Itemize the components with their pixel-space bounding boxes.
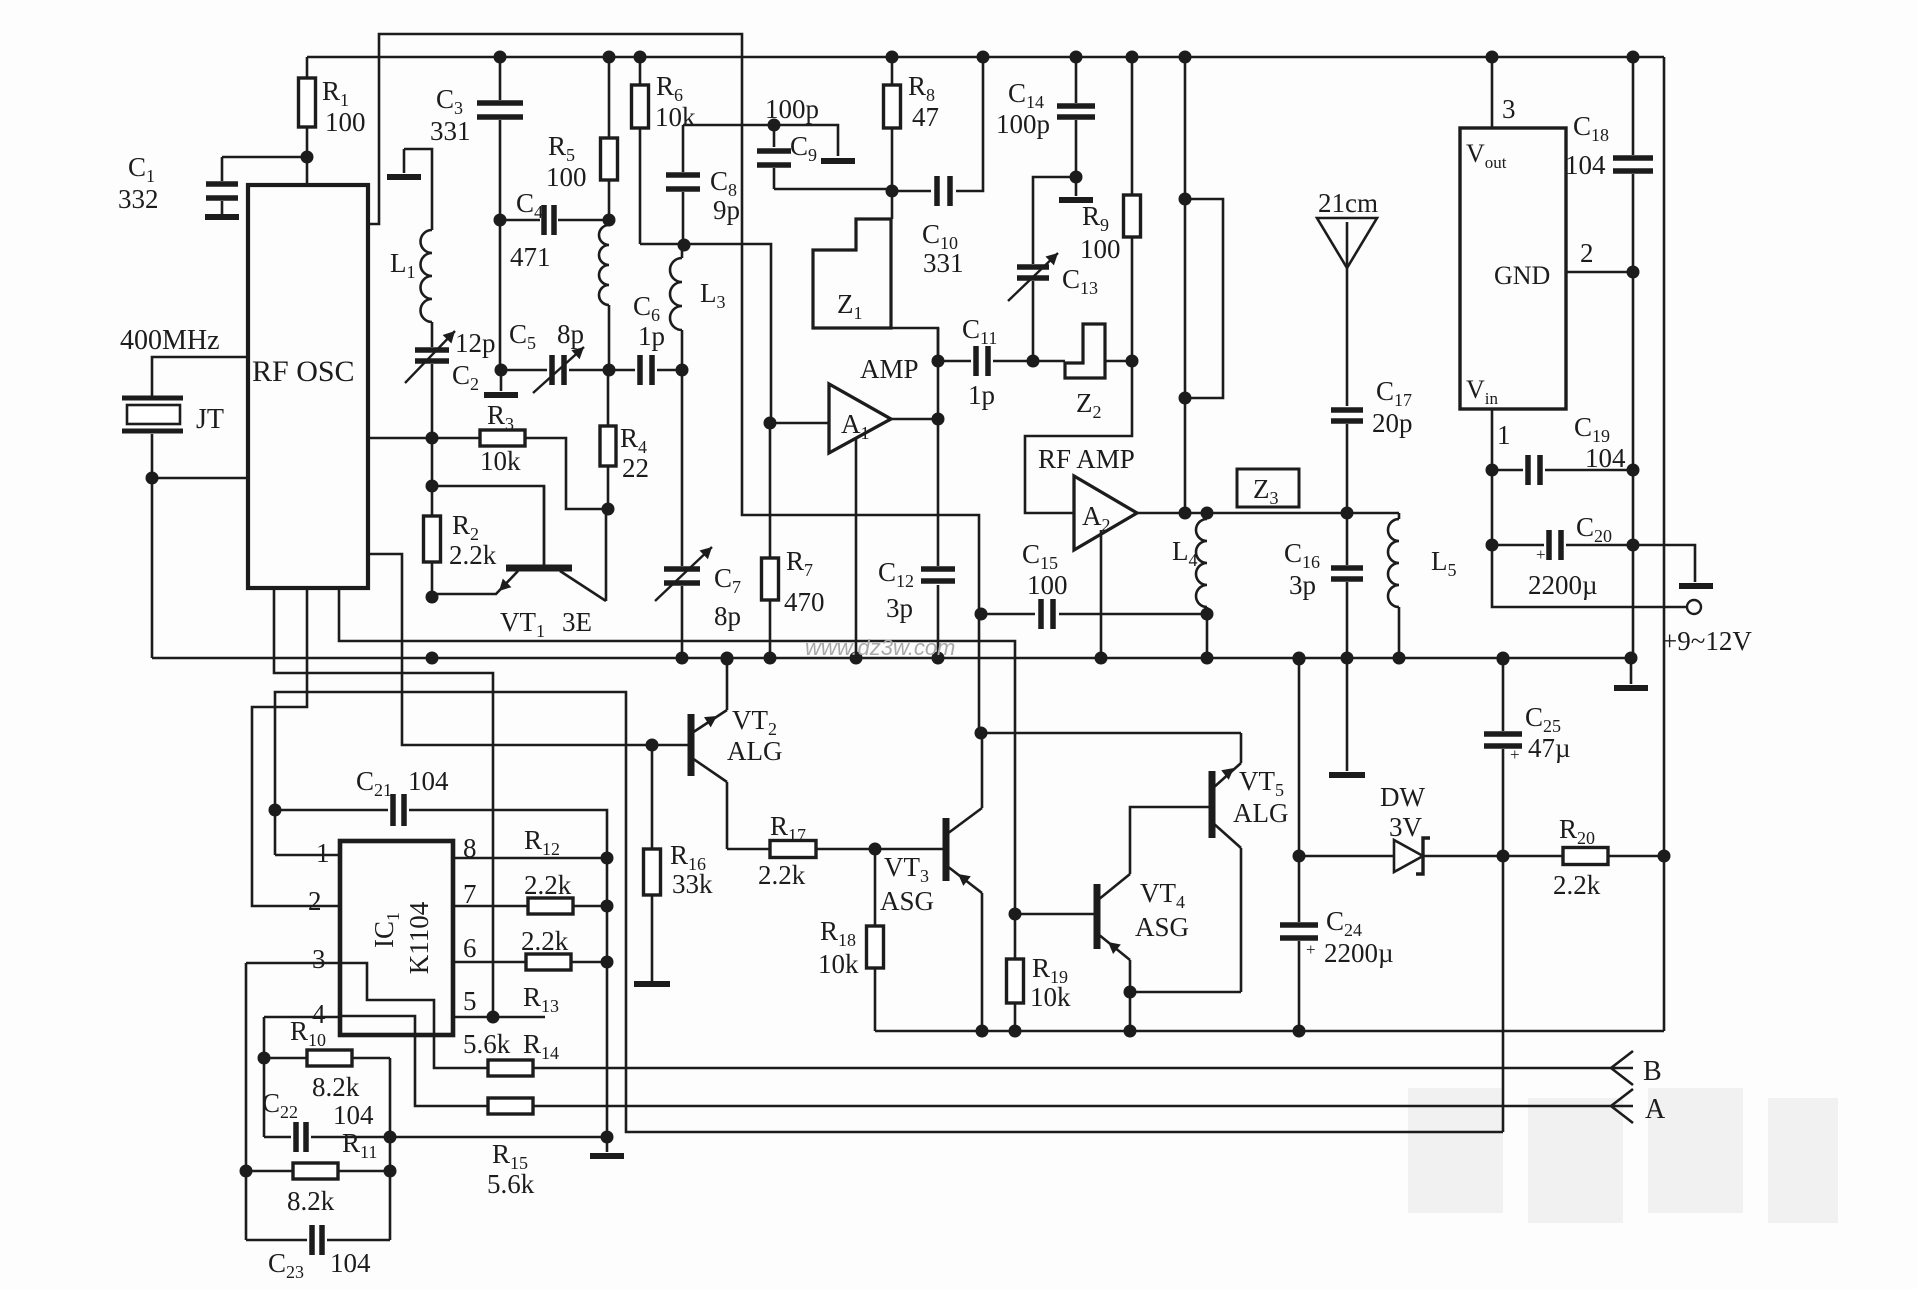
svg-text:DW: DW bbox=[1380, 782, 1425, 812]
wire R3 line bbox=[368, 438, 608, 509]
capacitor C22 bbox=[296, 1122, 306, 1152]
wire VT1 base bbox=[432, 486, 544, 566]
svg-text:22: 22 bbox=[622, 453, 649, 483]
ground at L1 top bbox=[403, 149, 406, 173]
node R11 left junction bbox=[240, 1165, 253, 1178]
crystal JT bbox=[122, 398, 183, 431]
node VT4 emitter junction bbox=[1124, 986, 1137, 999]
svg-text:ALG: ALG bbox=[727, 736, 783, 766]
node R4 bottom junction bbox=[602, 503, 615, 516]
node bus junction bbox=[764, 652, 777, 665]
wire A1 power pin bbox=[855, 437, 858, 658]
wire A1 output bbox=[891, 418, 938, 421]
wire IC internal route pin3 bbox=[340, 963, 434, 1035]
svg-text:+: + bbox=[1510, 745, 1520, 764]
svg-text:1: 1 bbox=[1497, 420, 1511, 450]
wire C5 line bbox=[501, 369, 609, 372]
svg-text:471: 471 bbox=[510, 242, 551, 272]
wire L1 to C2 bbox=[431, 322, 434, 347]
wire pin7 line bbox=[453, 905, 607, 908]
svg-text:A: A bbox=[1645, 1094, 1666, 1125]
svg-text:104: 104 bbox=[330, 1248, 371, 1278]
node C14 bottom junction bbox=[1070, 171, 1083, 184]
svg-text:3: 3 bbox=[1502, 94, 1516, 124]
node AMP-C11 junction bbox=[932, 355, 945, 368]
svg-text:ASG: ASG bbox=[880, 886, 934, 916]
node VT3 emitter bottom junction bbox=[976, 1025, 989, 1038]
svg-text:2.2k: 2.2k bbox=[521, 926, 569, 956]
capacitor C10 bbox=[937, 176, 950, 206]
node screen loop top junction bbox=[1179, 193, 1192, 206]
wire C4 link bbox=[500, 219, 609, 222]
node R9 top bbox=[1126, 51, 1139, 64]
svg-text:104: 104 bbox=[408, 766, 449, 796]
resistor R12 bbox=[528, 898, 573, 914]
capacitor C25 electrolytic bbox=[1484, 734, 1522, 746]
capacitor C16 bbox=[1346, 513, 1349, 565]
node pin8 junction bbox=[601, 852, 614, 865]
filter Z3 box bbox=[1237, 469, 1299, 507]
node R8 top bbox=[886, 51, 899, 64]
wire pin route B bbox=[252, 588, 340, 906]
node bus junction bbox=[850, 652, 863, 665]
node C17-C16 junction bbox=[1341, 507, 1354, 520]
node R19 bottom junction bbox=[1009, 1025, 1022, 1038]
svg-text:332: 332 bbox=[118, 184, 159, 214]
node bus junction bbox=[676, 652, 689, 665]
node R2 top junction bbox=[426, 480, 439, 493]
node JT-RFOSC junction bbox=[146, 472, 159, 485]
resistor R5 bbox=[608, 57, 611, 138]
wire C6 link bbox=[609, 369, 682, 372]
svg-text:2: 2 bbox=[308, 886, 322, 916]
capacitor C9 bbox=[773, 125, 776, 147]
node C9 top bbox=[768, 119, 781, 132]
node C2-R3 junction bbox=[426, 432, 439, 445]
wire main bus bbox=[152, 657, 1631, 660]
resistor R9 bbox=[1131, 57, 1134, 195]
capacitor C12 bbox=[921, 569, 955, 581]
node C21 left junction bbox=[269, 804, 282, 817]
svg-text:3V: 3V bbox=[1389, 812, 1423, 842]
node R10 left junction bbox=[258, 1052, 271, 1065]
svg-text:400MHz: 400MHz bbox=[120, 325, 220, 356]
node R2 bottom junction bbox=[426, 591, 439, 604]
ground below C1 bbox=[205, 214, 239, 220]
wire emitter link bbox=[1130, 992, 1241, 1031]
wire A2 output bbox=[1137, 512, 1399, 515]
capacitor C24 electrolytic bbox=[1280, 925, 1318, 938]
wire C1 lower stub bbox=[221, 201, 224, 214]
wire regulator pin2 bbox=[1566, 271, 1633, 274]
svg-text:331: 331 bbox=[923, 248, 964, 278]
wire C15 line bbox=[981, 613, 1207, 616]
svg-text:10k: 10k bbox=[818, 949, 859, 979]
regulator block bbox=[1460, 128, 1566, 409]
terminal supply circle bbox=[1687, 600, 1701, 614]
node bus junction bbox=[1293, 652, 1306, 665]
node C20 right junction bbox=[1627, 539, 1640, 552]
wire C21 line bbox=[275, 810, 607, 858]
svg-text:470: 470 bbox=[784, 587, 825, 617]
capacitor C5 variable bbox=[552, 355, 564, 385]
svg-text:AMP: AMP bbox=[860, 354, 919, 384]
node A1 output junction bbox=[932, 413, 945, 426]
resistor R14 bbox=[488, 1060, 533, 1076]
wire pin route D to VT2 base bbox=[368, 554, 691, 745]
node bus junction bbox=[721, 652, 734, 665]
svg-text:ALG: ALG bbox=[1233, 798, 1289, 828]
node screen loop bottom junction bbox=[1179, 392, 1192, 405]
svg-text:+: + bbox=[1536, 545, 1546, 564]
wire pin8 line bbox=[453, 857, 607, 860]
node VT4 bottom bus junction bbox=[1124, 1025, 1137, 1038]
wire C11 link bbox=[938, 360, 1033, 363]
wire supply loop bbox=[1492, 545, 1686, 607]
svg-text:4: 4 bbox=[312, 999, 326, 1029]
svg-text:3E: 3E bbox=[562, 607, 592, 637]
wire JT to RF OSC pin bbox=[152, 477, 248, 480]
svg-text:10k: 10k bbox=[1030, 982, 1071, 1012]
svg-text:RF AMP: RF AMP bbox=[1038, 444, 1135, 474]
wire VT3-VT5 collector link bbox=[981, 732, 1241, 735]
wire pin route A bbox=[274, 588, 493, 1017]
transistor VT1 bbox=[506, 565, 572, 572]
svg-text:100: 100 bbox=[1027, 570, 1068, 600]
wire C20 link bbox=[1492, 545, 1695, 582]
wire C13 bottom bbox=[1032, 281, 1035, 361]
svg-text:104: 104 bbox=[1585, 443, 1626, 473]
node L2 top junction bbox=[603, 214, 616, 227]
node C20 left junction bbox=[1486, 539, 1499, 552]
capacitor C2 variable bbox=[415, 350, 449, 361]
node R17-VT3 junction bbox=[869, 843, 882, 856]
svg-text:2200µ: 2200µ bbox=[1324, 938, 1394, 968]
wire R20 line bbox=[1503, 855, 1664, 858]
node DW left junction bbox=[1293, 850, 1306, 863]
resistor R10 bbox=[307, 1050, 352, 1066]
wire A line bbox=[533, 1105, 1610, 1108]
wire pin6 line bbox=[453, 961, 607, 964]
antenna 21cm bbox=[1317, 218, 1377, 268]
svg-text:33k: 33k bbox=[672, 869, 713, 899]
node R1-C1 junction bbox=[301, 151, 314, 164]
wire IC pin1 supply route bbox=[275, 692, 1503, 1132]
wire feedback loop top bbox=[368, 34, 979, 733]
ground right of C9 bbox=[821, 158, 855, 164]
transistor VT2 bbox=[688, 714, 695, 776]
capacitor C7 variable bbox=[681, 370, 684, 566]
svg-text:5: 5 bbox=[463, 986, 477, 1016]
node R20 right junction bbox=[1658, 850, 1671, 863]
wire C22 left rail bbox=[264, 1058, 390, 1137]
svg-text:331: 331 bbox=[430, 116, 471, 146]
node C3 top bbox=[494, 51, 507, 64]
node rail ground junction bbox=[601, 1131, 614, 1144]
capacitor C13 variable bbox=[1017, 267, 1049, 278]
svg-text:21cm: 21cm bbox=[1318, 188, 1378, 218]
node bus junction bbox=[932, 652, 945, 665]
transistor VT5 bbox=[1209, 771, 1216, 838]
wire right rail R12R13 bbox=[606, 858, 609, 1137]
wire C13 top link bbox=[1033, 177, 1076, 264]
svg-text:5.6k: 5.6k bbox=[463, 1029, 511, 1059]
wire pin3 left rail bbox=[246, 963, 340, 1240]
node C11 right junction bbox=[1027, 355, 1040, 368]
svg-text:RF OSC: RF OSC bbox=[252, 355, 355, 388]
resistor R17 bbox=[770, 841, 816, 858]
op-amp A1 bbox=[829, 384, 891, 453]
IC RF OSC block bbox=[248, 185, 368, 588]
svg-text:8p: 8p bbox=[557, 319, 584, 349]
node screen rail output junction bbox=[1179, 507, 1192, 520]
node C19 right junction bbox=[1627, 464, 1640, 477]
resistor R1 bbox=[306, 57, 309, 78]
capacitor C23 bbox=[312, 1225, 322, 1255]
svg-text:2.2k: 2.2k bbox=[524, 870, 572, 900]
capacitor C21 bbox=[393, 794, 404, 826]
wire C25 column bbox=[1502, 658, 1505, 856]
node R12 right junction bbox=[601, 900, 614, 913]
svg-text:100: 100 bbox=[325, 107, 366, 137]
node screen rail top bbox=[1179, 51, 1192, 64]
node C16 bus junction bbox=[1341, 652, 1354, 665]
svg-text:47: 47 bbox=[912, 102, 939, 132]
wire C10 link bbox=[892, 57, 983, 191]
svg-text:3p: 3p bbox=[886, 593, 913, 623]
inductor L1 bbox=[421, 230, 432, 322]
svg-text:www.dz3w.com: www.dz3w.com bbox=[805, 635, 955, 660]
svg-text:+9~12V: +9~12V bbox=[1662, 626, 1752, 656]
wire screen rail bbox=[1184, 57, 1187, 513]
svg-text:100: 100 bbox=[1080, 234, 1121, 264]
capacitor C18 bbox=[1613, 158, 1653, 171]
wire VT4 base bbox=[1015, 913, 1095, 916]
svg-text:2.2k: 2.2k bbox=[449, 540, 497, 570]
capacitor C6 bbox=[640, 355, 652, 385]
node pin2 junction bbox=[1627, 266, 1640, 279]
capacitor C14 bbox=[1075, 57, 1078, 177]
svg-text:2200µ: 2200µ bbox=[1528, 570, 1598, 600]
terminal A arrow bbox=[1610, 1105, 1633, 1108]
node C25-R20 junction bbox=[1497, 850, 1510, 863]
svg-text:8p: 8p bbox=[714, 601, 741, 631]
node bus junction bbox=[1497, 652, 1510, 665]
node L2 bottom junction bbox=[603, 364, 616, 377]
resistor R15 bbox=[488, 1098, 533, 1114]
ground below C14 bbox=[1075, 177, 1078, 196]
svg-text:1p: 1p bbox=[968, 380, 995, 410]
node VT2 base junction bbox=[646, 739, 659, 752]
node L4 top bbox=[1201, 507, 1214, 520]
wire R10 right rail bbox=[389, 1058, 392, 1240]
wire pin4 line bbox=[264, 1017, 340, 1058]
wire Z1 stub bbox=[891, 191, 894, 219]
node C15 left junction bbox=[975, 608, 988, 621]
ground at supply input bbox=[1679, 583, 1713, 589]
node C8-L3 junction bbox=[678, 239, 691, 252]
wire R14 left bbox=[434, 1035, 488, 1068]
node L4 tap junction bbox=[1201, 608, 1214, 621]
svg-text:12p: 12p bbox=[455, 328, 496, 358]
op-amp A2 bbox=[1074, 476, 1137, 550]
wire A2 input route bbox=[1025, 361, 1132, 513]
node C10 right top bbox=[977, 51, 990, 64]
resistor R7 bbox=[769, 423, 772, 558]
capacitor C1 bbox=[206, 184, 238, 198]
capacitor C20 electrolytic bbox=[1549, 530, 1561, 560]
wire C2 to R3 line bbox=[431, 364, 434, 438]
node C22 right junction bbox=[384, 1131, 397, 1144]
node Z1 top junction bbox=[886, 185, 899, 198]
resistor R6 bbox=[639, 57, 642, 85]
faint watermark background bbox=[1408, 1088, 1838, 1223]
svg-text:100p: 100p bbox=[996, 109, 1050, 139]
resistor R18 bbox=[874, 849, 877, 926]
wire R6 bottom link bbox=[640, 244, 771, 423]
svg-text:1: 1 bbox=[316, 838, 330, 868]
svg-text:3: 3 bbox=[312, 944, 326, 974]
svg-text:B: B bbox=[1643, 1056, 1662, 1087]
diode DW 3V zener bbox=[1394, 840, 1423, 872]
node pin1 junction bbox=[1486, 464, 1499, 477]
svg-text:5.6k: 5.6k bbox=[487, 1169, 535, 1199]
ground below R16 bbox=[634, 981, 670, 987]
inductor L3 bbox=[681, 245, 684, 258]
resistor R19 bbox=[1007, 959, 1024, 1003]
node bus junction bbox=[1095, 652, 1108, 665]
svg-text:2.2k: 2.2k bbox=[758, 860, 806, 890]
node bus junction bbox=[426, 652, 439, 665]
node C24 bottom junction bbox=[1293, 1025, 1306, 1038]
svg-text:104: 104 bbox=[333, 1100, 374, 1130]
wire L2 bottom bbox=[608, 305, 611, 370]
capacitor C19 bbox=[1528, 455, 1540, 485]
wire C11 to Z2 bbox=[1033, 360, 1132, 363]
svg-text:8.2k: 8.2k bbox=[287, 1186, 335, 1216]
node L5 bottom bbox=[1393, 652, 1406, 665]
node C18 top bbox=[1627, 51, 1640, 64]
svg-text:10k: 10k bbox=[480, 446, 521, 476]
wire C18 rail bbox=[1632, 57, 1635, 658]
svg-text:K1104: K1104 bbox=[404, 901, 434, 974]
wire A1 input bbox=[770, 422, 829, 425]
node VT2 collector bus junction bbox=[721, 653, 734, 666]
node L3 bottom junction bbox=[676, 364, 689, 377]
svg-text:3p: 3p bbox=[1289, 570, 1316, 600]
resistor R8 bbox=[891, 57, 894, 85]
node VT4 base junction bbox=[1009, 908, 1022, 921]
node pin5 junction bbox=[487, 1011, 500, 1024]
svg-text:GND: GND bbox=[1494, 261, 1550, 290]
wire pin1 line bbox=[275, 854, 340, 857]
node A1 input bbox=[764, 417, 777, 430]
wire IC internal route pin4 bbox=[340, 1016, 415, 1035]
node bus junction bbox=[1201, 652, 1214, 665]
inductor L5 bbox=[1398, 513, 1401, 519]
wire regulator pin1 bbox=[1491, 409, 1494, 545]
inductor L2 bbox=[599, 225, 609, 305]
svg-text:47µ: 47µ bbox=[1528, 733, 1571, 763]
svg-text:104: 104 bbox=[1565, 150, 1606, 180]
svg-text:6: 6 bbox=[463, 933, 477, 963]
capacitor C11 bbox=[976, 346, 988, 376]
wire DW line bbox=[1299, 855, 1502, 858]
wire DW column bbox=[1298, 658, 1301, 1031]
node C14 top bbox=[1070, 51, 1083, 64]
resonator Z2 bbox=[1065, 324, 1105, 378]
resistor R3 bbox=[480, 430, 525, 446]
wire R17 line bbox=[727, 848, 875, 851]
resistor R4 bbox=[607, 370, 610, 426]
node C4 left junction bbox=[494, 214, 507, 227]
wire right frame rail bbox=[1663, 57, 1666, 1031]
capacitor C8 bbox=[682, 125, 685, 172]
capacitor C15 bbox=[1041, 599, 1053, 629]
node R6 top bbox=[634, 51, 647, 64]
wire R11 line bbox=[246, 1170, 390, 1173]
wire C25 lower rail bbox=[1502, 856, 1505, 1132]
node R13 right junction bbox=[601, 956, 614, 969]
wire pin route C to R19 bbox=[339, 588, 1015, 959]
svg-text:2: 2 bbox=[1580, 238, 1594, 268]
wire screen loop bbox=[1185, 199, 1223, 398]
wire 100p line bbox=[683, 125, 838, 156]
wire C3 column bbox=[499, 57, 502, 370]
wire C1 to R1 bbox=[222, 157, 307, 181]
svg-text:ASG: ASG bbox=[1135, 912, 1189, 942]
resonator Z1 bbox=[813, 219, 891, 328]
svg-text:1p: 1p bbox=[638, 321, 665, 351]
resistor R20 bbox=[1563, 848, 1608, 865]
wire B line bbox=[533, 1067, 1610, 1070]
node pin3 bus junction bbox=[1486, 51, 1499, 64]
wire pin5 stub bbox=[453, 1016, 545, 1019]
svg-text:+: + bbox=[1306, 940, 1316, 959]
svg-text:7: 7 bbox=[463, 879, 477, 909]
node C3-C5 junction bbox=[495, 364, 508, 377]
wire top supply bus bbox=[307, 56, 1664, 59]
node bus right end bbox=[1625, 652, 1638, 665]
node Z2 right junction bbox=[1126, 355, 1139, 368]
transistor VT3 bbox=[943, 818, 950, 881]
svg-text:2.2k: 2.2k bbox=[1553, 870, 1601, 900]
capacitor C17 bbox=[1346, 268, 1349, 406]
wire Z1 bottom to AMP node bbox=[891, 328, 938, 361]
IC IC1 K1104 box bbox=[340, 841, 453, 1035]
wire bottom enclosure edge bbox=[875, 1030, 1664, 1033]
terminal B arrow bbox=[1610, 1067, 1633, 1070]
wire R10 line bbox=[264, 1057, 390, 1060]
transistor VT4 bbox=[1094, 884, 1101, 949]
wire C22 to rail bbox=[390, 1136, 607, 1139]
capacitor C4 bbox=[544, 205, 554, 235]
node R11 right junction bbox=[384, 1165, 397, 1178]
inductor L4 bbox=[1206, 513, 1209, 519]
ground below rail bbox=[606, 1137, 609, 1152]
node R5 top bbox=[603, 51, 616, 64]
ground below bus right bbox=[1630, 658, 1633, 684]
wire L1 top bbox=[404, 149, 432, 230]
wire C23 loop bbox=[246, 1239, 390, 1242]
svg-text:JT: JT bbox=[196, 404, 224, 435]
wire C19 link bbox=[1492, 469, 1633, 472]
resistor R2 bbox=[431, 438, 434, 516]
wire regulator pin3 bbox=[1491, 57, 1494, 128]
wire crystal bottom rail bbox=[151, 434, 154, 658]
wire A1 output rail bbox=[937, 328, 940, 658]
svg-text:9p: 9p bbox=[713, 195, 740, 225]
